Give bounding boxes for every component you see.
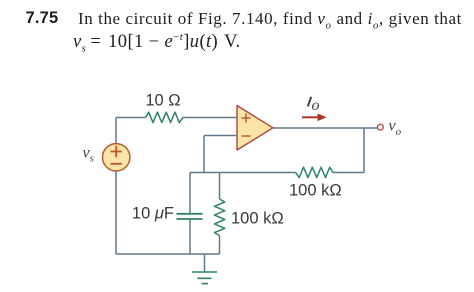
svg-text:100 kΩ: 100 kΩ	[231, 210, 284, 228]
source - sign	[111, 163, 122, 165]
wire: vertical from minus input down to feedback node	[203, 136, 205, 173]
source + sign	[111, 146, 122, 157]
wire: top-left vertical from source to top rail	[115, 118, 117, 144]
op-amp U1	[237, 106, 273, 151]
wire: feedback rail left segment to capacitor corner	[190, 172, 296, 174]
resistor 100k feedback zigzag	[296, 167, 334, 177]
wire: vertical resistor top lead	[219, 173, 221, 200]
svg-text:vo: vo	[389, 118, 402, 139]
op-amp + input sign	[242, 114, 251, 123]
ground	[192, 272, 217, 284]
wire: bottom rail	[116, 253, 220, 255]
resistor 10 ohm zigzag	[146, 112, 184, 122]
arrow io direction	[302, 116, 318, 118]
label io current	[308, 97, 311, 107]
wire: left vertical below source	[115, 171, 117, 254]
wire: ground stem	[204, 254, 206, 272]
wire: top rail left segment	[116, 117, 146, 119]
wire: op-amp output to terminal	[273, 127, 378, 129]
problem statement line 2	[73, 31, 241, 55]
svg-text:o: o	[312, 97, 320, 114]
wire: right vertical from output node down	[363, 128, 365, 173]
wire: feedback rail right segment	[333, 172, 364, 174]
voltage source vs	[103, 144, 130, 171]
svg-text:vs: vs	[83, 145, 94, 165]
resistor 100k vertical zigzag	[214, 199, 224, 236]
terminal node vo	[378, 124, 384, 130]
svg-text:100 kΩ: 100 kΩ	[289, 181, 342, 199]
wire: op-amp minus input lead	[204, 135, 237, 137]
wire: capacitor top lead	[189, 173, 191, 214]
capacitor 10uF plates	[177, 214, 203, 219]
wire: capacitor bottom lead	[189, 220, 191, 254]
op-amp - input sign	[242, 135, 251, 137]
problem statement line 1	[26, 9, 59, 28]
wire: vertical resistor bottom lead	[219, 236, 221, 255]
wire: top rail right segment to op-amp + input	[183, 117, 237, 119]
svg-text:10 Ω: 10 Ω	[145, 92, 180, 110]
svg-text:10 μF: 10 μF	[132, 205, 174, 223]
